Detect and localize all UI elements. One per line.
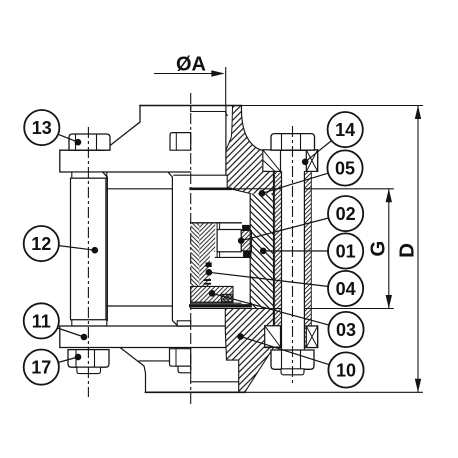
svg-text:10: 10	[336, 360, 356, 380]
svg-text:11: 11	[32, 311, 51, 331]
svg-text:03: 03	[336, 320, 356, 340]
svg-text:04: 04	[336, 279, 356, 299]
svg-text:01: 01	[336, 241, 356, 261]
svg-text:13: 13	[32, 118, 52, 138]
svg-text:G: G	[367, 241, 390, 257]
svg-text:17: 17	[31, 358, 51, 378]
svg-text:14: 14	[335, 120, 355, 140]
svg-text:05: 05	[335, 158, 355, 178]
svg-text:02: 02	[336, 204, 356, 224]
svg-text:ØA: ØA	[176, 54, 206, 76]
svg-text:12: 12	[31, 234, 51, 254]
svg-text:D: D	[396, 243, 419, 258]
